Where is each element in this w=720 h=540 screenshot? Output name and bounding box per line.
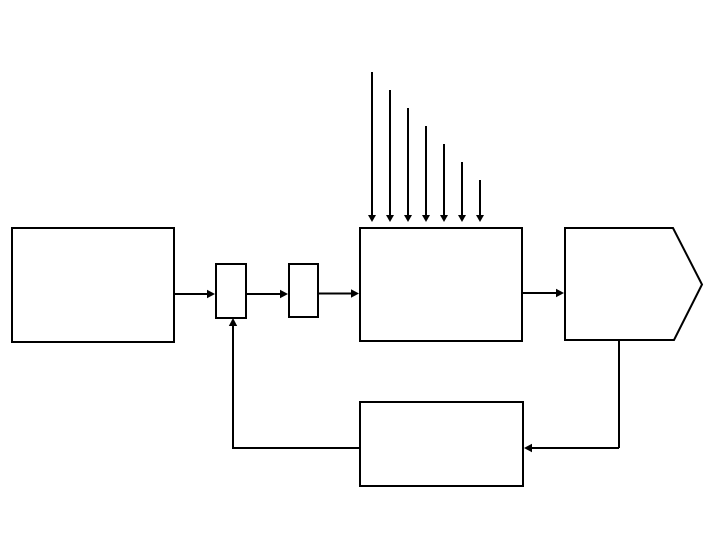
arrowhead up into small box 1 bottom — [229, 318, 237, 326]
input arrow 1 (top, longest) — [368, 72, 376, 222]
wire: source to small box 1 — [174, 293, 208, 295]
wire: small box 1 to small box 2 — [247, 293, 281, 295]
arrowhead into small box 1 — [207, 290, 215, 298]
input arrow 5 — [440, 144, 448, 222]
input arrow 4 — [422, 126, 430, 222]
block: small box 1 — [216, 264, 246, 318]
block: feedback box — [360, 402, 523, 486]
block: center process box — [360, 228, 522, 341]
wire: pentagon down to feedback row — [618, 341, 620, 448]
block: output pentagon — [565, 228, 702, 340]
input arrow 7 (shortest) — [476, 180, 484, 222]
wire: center box to pentagon — [522, 292, 557, 294]
wire: small box 2 to center box — [318, 293, 352, 295]
wire: feedback rise to small box 1 — [232, 324, 234, 449]
arrowhead into feedback box (pointing left) — [524, 444, 532, 452]
arrowhead into pentagon — [556, 289, 564, 297]
wire: feedback row left segment — [233, 447, 360, 449]
block: small box 2 — [289, 264, 318, 317]
wire: feedback row right segment — [531, 447, 619, 449]
input arrow 2 — [386, 90, 394, 222]
block: left source box — [12, 228, 174, 342]
arrowhead into small box 2 — [280, 290, 288, 298]
input arrow 3 — [404, 108, 412, 222]
input arrow 6 — [458, 162, 466, 222]
arrowhead into center box — [351, 289, 359, 297]
